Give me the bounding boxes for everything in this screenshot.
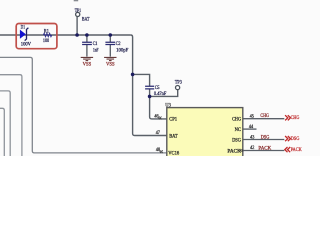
resistor R1: [43, 29, 52, 45]
svg-text:D1: D1: [21, 25, 26, 31]
svg-text:PACK: PACK: [227, 148, 241, 154]
pin 48 VC16: [156, 148, 180, 157]
wire pin 42 PACK: [243, 150, 284, 152]
pin 42 PACK: [227, 146, 271, 155]
svg-text:0.47nF: 0.47nF: [154, 91, 167, 97]
svg-text:47: 47: [156, 131, 161, 136]
svg-text:CP1: CP1: [169, 117, 177, 123]
ground VSS (C2): [104, 57, 116, 67]
svg-text:R1: R1: [44, 29, 49, 35]
pin 43 DSG: [232, 135, 270, 144]
wire C1 stem: [86, 35, 88, 57]
svg-text:100V: 100V: [21, 42, 31, 48]
wire to TP3: [150, 90, 178, 96]
svg-text:CHG: CHG: [260, 113, 269, 119]
port CHG: [285, 115, 300, 121]
wire cell tap C: [0, 91, 10, 156]
svg-text:PACK: PACK: [258, 146, 271, 152]
wire main vertical down to pin 47: [131, 35, 168, 136]
capacitor C2: [105, 41, 128, 53]
wire C5 bottom to pin 46: [150, 89, 168, 119]
junction C2: [109, 33, 113, 37]
junction TP1/BAT: [75, 33, 79, 37]
svg-text:45: 45: [250, 115, 255, 120]
svg-text:42: 42: [250, 146, 255, 151]
capacitor C1: [82, 41, 98, 53]
svg-text:DSG: DSG: [232, 137, 241, 143]
svg-text:DSG: DSG: [291, 136, 300, 142]
wire pin 43 DSG: [243, 139, 284, 141]
test point TP1: [75, 8, 90, 22]
pin 47 BAT: [156, 131, 178, 140]
svg-text:C1: C1: [93, 41, 98, 47]
highlight box around D1 R1: [16, 24, 57, 49]
pin 45 CHG: [232, 113, 269, 122]
wire pin 45 CHG: [243, 118, 284, 120]
svg-text:1nF: 1nF: [93, 47, 99, 53]
svg-text:43: 43: [250, 136, 255, 141]
svg-text:DSG: DSG: [261, 135, 270, 141]
pin 44 NC: [235, 125, 254, 133]
svg-text:BAT: BAT: [82, 16, 90, 22]
wire VC16 net from left edge to pin 48: [0, 57, 168, 152]
ground VSS (C1): [81, 57, 93, 67]
cropped mark top edge: [74, 0, 79, 1]
junction C1: [85, 33, 89, 37]
wire pin 44 NC stub: [243, 128, 257, 130]
wire TP1 drop: [76, 17, 78, 36]
wire cell tap D: [0, 108, 4, 156]
svg-text:BAT: BAT: [169, 133, 178, 139]
svg-text:TP1: TP1: [75, 8, 82, 14]
IC U3: [165, 102, 243, 161]
svg-text:TP3: TP3: [175, 79, 182, 85]
svg-text:NC: NC: [235, 127, 242, 133]
port PACK: [285, 147, 302, 153]
svg-text:100: 100: [43, 38, 50, 44]
svg-text:100pF: 100pF: [116, 47, 128, 53]
svg-text:CHG: CHG: [232, 117, 241, 123]
wire cell tap B: [0, 75, 22, 156]
svg-text:VC16: VC16: [168, 151, 179, 156]
port DSG: [285, 136, 300, 142]
junction C5 branch: [131, 73, 135, 77]
wire branch to C5: [133, 74, 150, 86]
svg-text:46: 46: [154, 114, 159, 119]
wire C2 stem: [109, 35, 111, 57]
pin 46 CP1: [154, 114, 177, 122]
test point TP3: [175, 79, 182, 89]
svg-text:PACK: PACK: [291, 147, 302, 153]
svg-text:C2: C2: [116, 41, 121, 47]
wire main BAT net horizontal: [0, 34, 131, 36]
svg-text:VSS: VSS: [106, 62, 115, 68]
svg-text:VSS: VSS: [83, 62, 92, 68]
diode D1: [20, 25, 31, 48]
svg-text:U3: U3: [165, 102, 171, 108]
capacitor C5: [145, 85, 166, 97]
svg-text:44: 44: [249, 125, 254, 130]
junction TP3 branch: [148, 95, 152, 99]
svg-text:CHG: CHG: [291, 115, 300, 121]
